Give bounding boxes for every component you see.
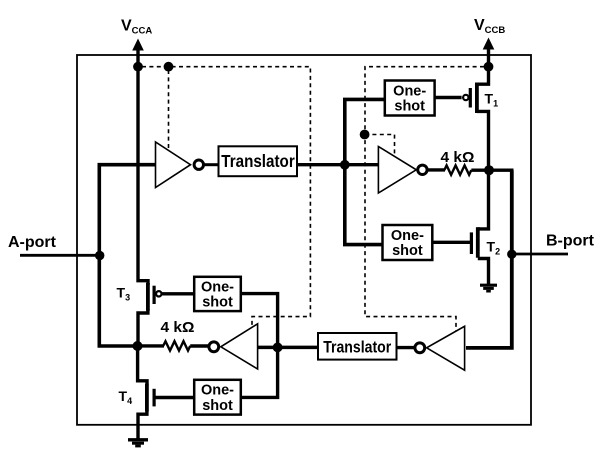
ground under T2: [480, 285, 497, 291]
wire translator X1 output to B-side inverter: [297, 163, 379, 166]
node: dot on VCCB dashed net: [360, 130, 370, 140]
svg-text:One-: One-: [391, 228, 424, 244]
VCCA supply wire (down to T3 source): [138, 47, 148, 285]
wire B riser (junction to B-port and B input inverter): [466, 170, 512, 348]
inverter U1 output bubble: [194, 160, 203, 169]
wire T4 source to ground: [138, 410, 147, 440]
node: A drive junction dot: [133, 341, 143, 351]
svg-text:A-port: A-port: [8, 234, 57, 251]
transistor T2 gate bar: [470, 232, 473, 254]
svg-text:Translator: Translator: [221, 151, 295, 171]
outer IC boundary box: [77, 55, 531, 425]
wire T1 source to VCCB: [477, 65, 489, 84]
svg-text:B-port: B-port: [546, 233, 595, 250]
dashed VCCB branch to B input inverter: [365, 135, 395, 157]
translator X1 box: [219, 146, 298, 176]
wire B-port output: [513, 253, 568, 256]
op-amp U4 B-output inverter: [378, 147, 416, 194]
op-amp U7 A-output inverter (points left): [221, 324, 258, 369]
transistor T3 gate bar: [153, 286, 156, 304]
svg-text:shot: shot: [202, 295, 233, 311]
dashed VCCA supply net (to A-side inverters): [142, 67, 310, 327]
one-shot U5 box: [194, 277, 241, 311]
dashed VCCA branch to input inverter: [168, 70, 170, 150]
svg-text:shot: shot: [202, 398, 233, 414]
transistor T3 channel bar: [146, 283, 150, 311]
resistor R1 4kOhm: [444, 165, 471, 174]
transistor T3 gate bubble: [156, 291, 161, 296]
dashed VCCB supply net (to B-side inverters): [365, 67, 484, 332]
node: VCCB dashed tap dot: [484, 62, 494, 72]
wire T2 drain to B line: [478, 168, 489, 229]
wire T1 drain to B line: [477, 111, 489, 172]
wire one-shot feed rail (to U2,U3 one-shots): [345, 99, 385, 244]
VCCA arrow: [132, 39, 144, 51]
transistor T1 gate bar: [469, 88, 472, 108]
wire T4 drain from A node: [138, 344, 147, 385]
node: A one-shot tap dot: [273, 343, 283, 353]
node: one-shot tap dot: [340, 160, 350, 170]
wire R1 to B node: [471, 168, 513, 171]
node: dashed branch dot: [164, 62, 174, 72]
transistor T1 channel bar: [475, 83, 479, 114]
wire A-port input: [20, 254, 100, 257]
wire R2 to inverter U5 bubble: [190, 344, 209, 347]
one-shot U3 box: [383, 225, 433, 260]
inverter U4 output bubble: [418, 165, 427, 174]
translator X2 box: [318, 333, 397, 360]
wire A node to resistor R2: [139, 344, 164, 347]
VCCB arrow: [483, 38, 495, 50]
op-amp U1 A-input inverter: [156, 142, 191, 188]
wire translator X2 to U8 bubble: [397, 346, 416, 349]
node: VCCA dashed tap dot: [133, 62, 143, 72]
VCCB supply wire: [487, 46, 490, 68]
ground under T4: [128, 440, 148, 446]
wire U1 to translator: [204, 163, 219, 166]
wire one-shot feed rail (U5,U6 inputs): [241, 294, 278, 398]
wire T3 drain to A node: [138, 309, 148, 346]
resistor R2 4kOhm: [163, 341, 190, 350]
node: A-port junction dot: [95, 251, 104, 260]
wire T4 gate to one-shot U6: [155, 396, 196, 399]
svg-text:One-: One-: [201, 279, 234, 295]
one-shot U2 box: [385, 81, 435, 116]
wire T2 source to ground: [478, 259, 489, 285]
transistor T1 gate bubble: [463, 95, 468, 100]
transistor T4 channel bar: [145, 384, 149, 412]
transistor T2 channel bar: [476, 227, 480, 258]
wire T3 gate to one-shot U5: [162, 292, 195, 295]
node: B drive junction dot: [484, 165, 494, 175]
wire U4 to resistor R1: [427, 168, 445, 171]
wire A-port riser to top path and bottom node: [99, 165, 155, 346]
node: B-port junction dot: [507, 250, 516, 259]
svg-text:shot: shot: [394, 99, 425, 115]
transistor T4 gate bar: [153, 389, 156, 407]
svg-text:4 kΩ: 4 kΩ: [441, 149, 475, 166]
svg-text:One-: One-: [393, 83, 426, 99]
svg-text:4 kΩ: 4 kΩ: [161, 319, 195, 336]
wire U3 output to T2 gate: [432, 241, 470, 244]
svg-text:shot: shot: [392, 243, 423, 259]
one-shot U6 box: [194, 380, 241, 415]
svg-text:One-: One-: [201, 383, 234, 399]
wire U2 output to T1 gate: [435, 96, 462, 99]
inverter U7 output bubble: [209, 342, 219, 352]
inverter U8 output bubble: [415, 343, 425, 353]
svg-text:Translator: Translator: [323, 339, 391, 357]
op-amp U8 B-input inverter (points left): [427, 326, 465, 370]
wire U7 input from translator X2: [258, 346, 319, 350]
